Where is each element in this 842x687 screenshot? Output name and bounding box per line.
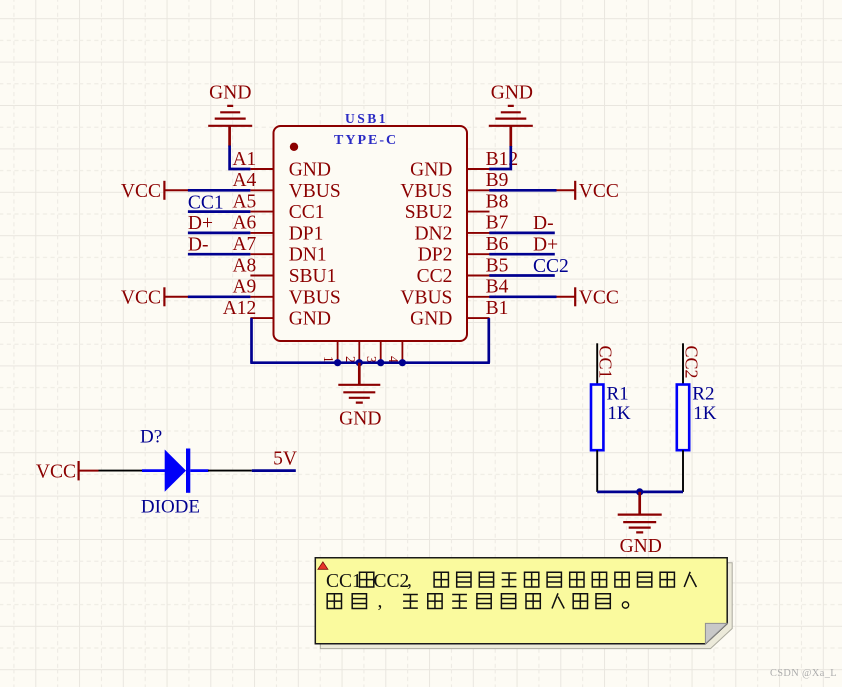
- pin B1 (GND): [410, 298, 508, 330]
- svg-text:GND: GND: [339, 408, 381, 429]
- svg-text:A9: A9: [232, 277, 256, 298]
- svg-text:5V: 5V: [273, 449, 297, 470]
- svg-text:DP1: DP1: [289, 223, 324, 244]
- svg-text:D+: D+: [188, 213, 213, 234]
- pin A7 (DN1): [232, 234, 326, 266]
- svg-text:USB1: USB1: [345, 111, 388, 126]
- wire net D- to pin A7: [188, 253, 251, 256]
- svg-text:CC2: CC2: [417, 266, 453, 287]
- svg-text:VBUS: VBUS: [289, 287, 341, 308]
- pin S1 (bottom shield pin): [321, 341, 338, 363]
- svg-text:R1: R1: [607, 383, 629, 404]
- junction on ground bus (pin S3): [377, 359, 384, 366]
- pin A12 (GND): [223, 298, 331, 330]
- note red marker triangle: [318, 562, 328, 569]
- svg-text:DN2: DN2: [414, 223, 452, 244]
- connector USB1 body: [274, 126, 468, 341]
- wire pin B9 to VCC: [489, 189, 556, 192]
- pin S4 (bottom shield pin): [386, 341, 403, 363]
- svg-text:B9: B9: [486, 170, 509, 191]
- power port VCC (left upper): [121, 181, 189, 202]
- power port GND (top right): [489, 83, 533, 148]
- svg-text:VBUS: VBUS: [289, 181, 341, 202]
- wire GND to pin B12: [489, 146, 511, 169]
- wire pin B7 to net D-: [489, 232, 555, 235]
- wire GND to pin A1: [230, 146, 251, 170]
- svg-text:GND: GND: [491, 83, 533, 104]
- svg-text:SBU2: SBU2: [405, 202, 453, 223]
- pin B6 (DP2): [418, 234, 509, 266]
- power port GND (top left): [208, 83, 252, 147]
- wire net 5V: [252, 469, 296, 472]
- svg-text:,: ,: [378, 591, 383, 612]
- wire net CC1 to pin A5: [188, 210, 251, 213]
- wire R1 to R2 bottom (ground bus): [597, 491, 683, 494]
- svg-text:GND: GND: [289, 309, 331, 330]
- pin A1 (GND): [232, 149, 330, 181]
- svg-text:A4: A4: [232, 170, 256, 191]
- wire VCC to pin A9: [188, 295, 251, 298]
- pin A4 (VBUS): [232, 170, 340, 202]
- pin B5 (CC2): [417, 255, 509, 287]
- svg-text:GND: GND: [620, 536, 662, 557]
- svg-text:DN1: DN1: [289, 245, 327, 266]
- svg-text:B6: B6: [486, 234, 509, 255]
- svg-text:GND: GND: [410, 309, 452, 330]
- svg-text:VCC: VCC: [579, 288, 619, 309]
- pin A9 (VBUS): [232, 277, 340, 309]
- svg-text:D-: D-: [188, 234, 209, 255]
- power port VCC (right upper): [556, 181, 619, 202]
- wire net CC2 (vertical, to R top): [682, 343, 684, 384]
- power port VCC (right lower): [556, 287, 619, 308]
- svg-text:VCC: VCC: [121, 181, 161, 202]
- wire net CC1 (vertical, to R top): [596, 343, 598, 384]
- pin B4 (VBUS): [400, 277, 508, 309]
- svg-text:B8: B8: [486, 191, 509, 212]
- svg-text:,: ,: [407, 570, 412, 591]
- resistor R2 body: [677, 385, 689, 451]
- svg-text:DIODE: DIODE: [141, 496, 200, 517]
- diode pin 2 (cathode lead): [208, 470, 252, 472]
- wire pin B6 to net D+: [489, 253, 555, 256]
- svg-text:CC1: CC1: [596, 346, 616, 379]
- svg-text:B5: B5: [486, 255, 509, 276]
- svg-text:VBUS: VBUS: [400, 287, 452, 308]
- svg-text:A12: A12: [223, 298, 257, 319]
- svg-text:CC1: CC1: [326, 571, 362, 592]
- resistor R2 bottom pin: [682, 450, 684, 492]
- svg-text:CSDN @Xa_L: CSDN @Xa_L: [770, 668, 837, 679]
- power port GND (below USB1): [338, 363, 381, 430]
- svg-text:B4: B4: [486, 277, 509, 298]
- note folded corner: [705, 623, 727, 643]
- pin S3 (bottom shield pin): [364, 341, 381, 363]
- svg-text:GND: GND: [289, 160, 331, 181]
- pin B9 (VBUS): [400, 170, 508, 202]
- svg-text:CC1: CC1: [289, 202, 325, 223]
- svg-text:B7: B7: [486, 213, 509, 234]
- wire pin B5 to net CC2: [489, 274, 555, 277]
- svg-text:R2: R2: [692, 383, 714, 404]
- svg-text:CC1: CC1: [188, 192, 224, 213]
- svg-text:1K: 1K: [607, 403, 631, 424]
- wire pin A12 down to ground bus: [250, 318, 253, 363]
- pin A5 (CC1): [232, 191, 324, 223]
- junction on ground bus (pin S2): [356, 359, 363, 366]
- note box: [315, 558, 727, 644]
- pin A8 (SBU1): [232, 255, 336, 287]
- junction at GND stem: [636, 488, 643, 495]
- svg-text:1K: 1K: [693, 403, 717, 424]
- svg-text:D?: D?: [140, 427, 162, 448]
- power port VCC (left lower): [121, 287, 189, 308]
- svg-text:VCC: VCC: [121, 288, 161, 309]
- svg-text:A6: A6: [232, 213, 256, 234]
- svg-text:A7: A7: [232, 234, 256, 255]
- svg-text:VCC: VCC: [579, 181, 619, 202]
- pin S2 (bottom shield pin): [343, 341, 360, 363]
- svg-text:D+: D+: [533, 234, 558, 255]
- junction on ground bus (pin S1): [334, 359, 341, 366]
- svg-text:A8: A8: [232, 255, 256, 276]
- note text line 2: 方向，以及不同的插入设备。: [327, 591, 629, 612]
- wire pin B4 to VCC: [489, 295, 556, 298]
- svg-text:GND: GND: [410, 160, 452, 181]
- svg-text:CC2: CC2: [374, 571, 410, 592]
- svg-text:VCC: VCC: [36, 462, 76, 483]
- pin B7 (DN2): [414, 213, 508, 245]
- svg-text:B12: B12: [486, 149, 519, 170]
- power port GND (below resistors): [618, 492, 662, 557]
- diode D1 pin 1 (anode lead): [99, 470, 144, 472]
- pin B8 (SBU2): [405, 191, 509, 223]
- power port VCC (diode anode): [36, 461, 99, 483]
- svg-text:D-: D-: [533, 213, 554, 234]
- svg-text:CC2: CC2: [533, 256, 569, 277]
- note shadow: [320, 563, 732, 649]
- svg-text:SBU1: SBU1: [289, 266, 337, 287]
- pin B12 (GND): [410, 149, 518, 181]
- diode D? symbol: [142, 449, 209, 493]
- svg-text:GND: GND: [209, 83, 251, 104]
- svg-text:A5: A5: [232, 191, 256, 212]
- svg-text:VBUS: VBUS: [400, 181, 452, 202]
- note text line 1: CC1和CC2，他们用于识别连接器的插入: [326, 570, 696, 592]
- wire VCC to pin A4: [188, 189, 251, 192]
- pin A6 (DP1): [232, 213, 323, 245]
- resistor R1 bottom pin: [596, 450, 598, 492]
- resistor R1 body: [591, 385, 603, 451]
- junction on ground bus (pin S4): [399, 359, 406, 366]
- svg-text:DP2: DP2: [418, 245, 453, 266]
- wire pin B1 down to ground bus: [487, 318, 490, 363]
- wire ground bus (horizontal): [250, 361, 490, 364]
- svg-text:B1: B1: [486, 298, 509, 319]
- wire net D+ to pin A6: [188, 232, 251, 235]
- svg-text:CC2: CC2: [681, 346, 701, 379]
- svg-text:TYPE-C: TYPE-C: [334, 133, 398, 148]
- svg-text:A1: A1: [232, 149, 256, 170]
